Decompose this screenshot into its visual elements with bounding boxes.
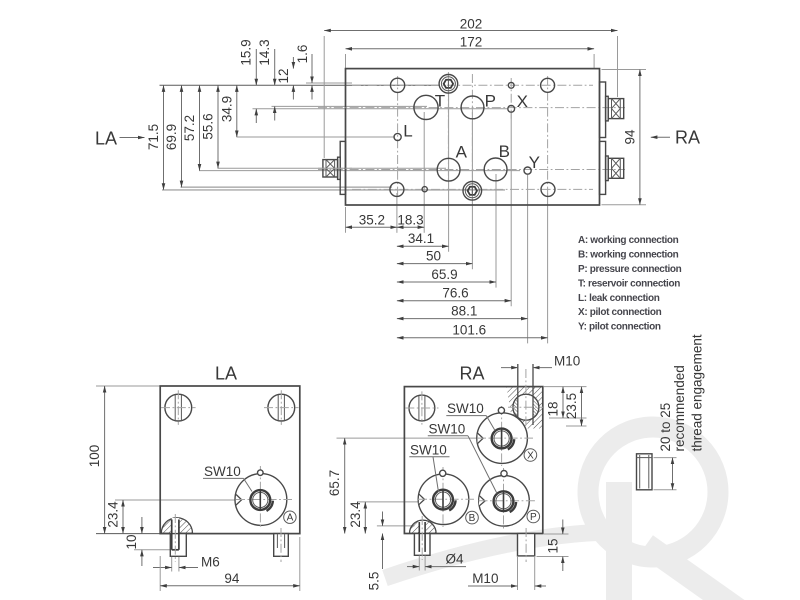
stud right lower bbox=[606, 156, 624, 181]
svg-text:100: 100 bbox=[87, 445, 102, 468]
node refline 69.9 bbox=[181, 186, 393, 188]
label T bbox=[435, 92, 445, 111]
dimension 15.9 bbox=[239, 39, 257, 123]
svg-text:X: X bbox=[527, 450, 534, 461]
stud M6 left LA bbox=[170, 514, 186, 562]
dimension M6 LA bbox=[153, 554, 220, 571]
dimension 69.9 bbox=[164, 85, 182, 187]
svg-text:65.7: 65.7 bbox=[327, 470, 342, 496]
svg-text:23.4: 23.4 bbox=[348, 501, 363, 528]
svg-text:Y: pilot connection: Y: pilot connection bbox=[578, 322, 661, 333]
dimension Ø4 RA bbox=[407, 551, 466, 570]
block body top view bbox=[346, 69, 600, 205]
svg-text:P: P bbox=[530, 512, 537, 523]
svg-text:A: working connection: A: working connection bbox=[578, 235, 679, 246]
svg-text:L: L bbox=[403, 122, 412, 141]
svg-text:P: pressure connection: P: pressure connection bbox=[578, 264, 682, 275]
svg-text:M6: M6 bbox=[201, 554, 220, 569]
svg-text:20 to 25: 20 to 25 bbox=[658, 403, 673, 452]
node refline 71.5 bbox=[162, 189, 505, 191]
svg-text:LA: LA bbox=[215, 364, 237, 384]
bolt socket-head top U1 bbox=[439, 75, 458, 94]
wire extension 172 right bbox=[593, 54, 595, 68]
dimension 172 bbox=[346, 35, 595, 50]
stud pin left RA bbox=[414, 516, 430, 560]
svg-text:88.1: 88.1 bbox=[451, 303, 477, 318]
stud left side with plate bbox=[323, 141, 346, 194]
dimension 14.3 bbox=[257, 39, 275, 120]
dimension 65.7 RA bbox=[327, 438, 345, 533]
svg-text:B: working connection: B: working connection bbox=[578, 250, 679, 261]
dimension 10 LA bbox=[124, 517, 142, 566]
svg-text:14.3: 14.3 bbox=[257, 39, 272, 65]
dimension 18 RA bbox=[546, 387, 564, 418]
svg-text:1.6: 1.6 bbox=[295, 45, 310, 64]
label SW10 P with leader bbox=[428, 421, 497, 493]
wire extension col hole-left bbox=[396, 193, 398, 233]
label 20 to 25 bbox=[658, 403, 673, 452]
svg-text:18: 18 bbox=[546, 401, 561, 416]
dimension 35.2 bbox=[346, 212, 397, 227]
refline LA top edge bbox=[96, 385, 160, 387]
svg-text:A: A bbox=[456, 142, 468, 161]
svg-text:P: P bbox=[485, 92, 496, 111]
watermark logo R bbox=[385, 427, 752, 600]
wire extension col Y bbox=[527, 175, 529, 343]
svg-text:X: X bbox=[517, 92, 528, 111]
hatch corner M10 RA bbox=[507, 364, 544, 429]
hole X bbox=[508, 105, 515, 112]
port B bbox=[484, 158, 507, 181]
hole pilot B RA bbox=[440, 470, 446, 476]
wire extension col T bbox=[423, 112, 425, 233]
node refline 57.2 bbox=[199, 170, 520, 172]
stud right upper bbox=[606, 96, 624, 121]
dimension 5.5 RA bbox=[367, 512, 383, 591]
bolt LA top-left bbox=[161, 390, 196, 425]
label Y bbox=[529, 153, 540, 172]
svg-text:M10: M10 bbox=[554, 353, 580, 368]
svg-text:34.1: 34.1 bbox=[408, 231, 434, 246]
port P bbox=[461, 96, 484, 119]
svg-text:23.5: 23.5 bbox=[564, 393, 579, 419]
svg-text:SW10: SW10 bbox=[429, 421, 466, 436]
port X cavity RA bbox=[477, 406, 533, 466]
dimension 1.6 bbox=[295, 45, 312, 100]
dimension 202 bbox=[324, 16, 617, 31]
node refline 55.6 bbox=[218, 167, 447, 169]
svg-text:18.3: 18.3 bbox=[397, 212, 423, 227]
refline RA 23.4 bbox=[357, 501, 418, 503]
label SW10 B with leader bbox=[409, 442, 449, 492]
svg-text:T: reservoir connection: T: reservoir connection bbox=[578, 278, 680, 289]
label recommended bbox=[672, 365, 687, 451]
svg-text:RA: RA bbox=[459, 364, 484, 384]
hole L bbox=[394, 133, 401, 140]
pocket counterbore RA hatched bbox=[410, 520, 437, 533]
dimension 15 RA bbox=[537, 520, 569, 572]
wire extension col A bbox=[448, 88, 450, 252]
svg-text:202: 202 bbox=[460, 16, 483, 31]
port A cavity LA bbox=[235, 466, 292, 527]
dimension 34.1 bbox=[397, 231, 449, 246]
svg-text:76.6: 76.6 bbox=[442, 286, 468, 301]
dimension 65.9 bbox=[397, 267, 496, 282]
svg-text:SW10: SW10 bbox=[204, 464, 241, 479]
plate right lower bbox=[600, 141, 606, 194]
refline LA hole bottom bbox=[134, 549, 172, 551]
svg-text:thread engagement: thread engagement bbox=[690, 334, 705, 451]
dimension 20 to 25 engagement bbox=[654, 458, 677, 490]
label L bbox=[403, 122, 412, 141]
node rowline top holes bbox=[160, 84, 440, 86]
dimension 100 LA bbox=[87, 386, 105, 534]
svg-text:71.5: 71.5 bbox=[146, 124, 161, 150]
svg-text:12: 12 bbox=[276, 68, 291, 83]
refline LA 23.4 bbox=[115, 499, 236, 501]
label LA title bbox=[215, 364, 237, 384]
svg-text:69.9: 69.9 bbox=[164, 124, 179, 150]
node refline T P lower bbox=[253, 108, 508, 110]
svg-text:15: 15 bbox=[545, 538, 560, 553]
port T bbox=[414, 95, 438, 119]
hole pilot X RA bbox=[498, 407, 504, 413]
refline LA bottom edge ext bbox=[96, 533, 160, 535]
centerline row1 bbox=[352, 84, 593, 86]
dimension 23.4 LA bbox=[106, 500, 124, 534]
wire extension col B bbox=[495, 174, 497, 288]
dimension 34.9 bbox=[219, 85, 237, 137]
centerline col X bbox=[510, 78, 512, 120]
hole top-left bbox=[391, 78, 405, 92]
label marker P circled bbox=[527, 510, 540, 523]
label RA pointer bbox=[651, 128, 700, 148]
port B cavity RA bbox=[418, 467, 474, 527]
refline 23.5 bottom bbox=[566, 425, 587, 427]
label thread engagement bbox=[690, 334, 705, 451]
svg-text:X: pilot connection: X: pilot connection bbox=[578, 307, 662, 318]
label B bbox=[499, 142, 510, 161]
centerline stud left bbox=[318, 167, 352, 169]
dimension 23.5 RA bbox=[564, 387, 582, 426]
svg-text:34.9: 34.9 bbox=[219, 96, 234, 122]
node refline 1.6 upper bbox=[306, 82, 352, 84]
hole pilot top X-column bbox=[508, 82, 514, 88]
svg-text:SW10: SW10 bbox=[447, 401, 484, 416]
hole Y bbox=[524, 167, 531, 174]
dimension M10 top RA bbox=[501, 353, 580, 368]
svg-text:10: 10 bbox=[124, 534, 139, 549]
wire extension block left bottom bbox=[345, 207, 347, 233]
hole bottom-left bbox=[390, 182, 404, 196]
dimension 94 LA bbox=[160, 537, 300, 591]
bolt socket-head bottom U2 bbox=[463, 182, 482, 201]
svg-text:Ø4: Ø4 bbox=[446, 551, 465, 566]
refline 18 bottom bbox=[549, 417, 587, 419]
svg-text:A: A bbox=[287, 513, 294, 524]
svg-text:55.6: 55.6 bbox=[201, 113, 216, 139]
label P bbox=[485, 92, 496, 111]
wire extension col X bbox=[510, 113, 512, 306]
port A bbox=[437, 158, 460, 181]
dimension 57.2 bbox=[182, 85, 200, 170]
centerline col P bolt-bottom bbox=[471, 74, 473, 203]
stud right LA bbox=[274, 528, 289, 562]
dimension 88.1 bbox=[397, 303, 528, 318]
refline RA 65.7 top bbox=[337, 437, 478, 439]
wire extension 202 left bbox=[323, 36, 325, 158]
dimension M10 bottom RA bbox=[468, 556, 546, 590]
refline RA top right ext bbox=[544, 386, 587, 388]
pocket counterbore LA hatched bbox=[161, 518, 192, 534]
dimension 12 bbox=[276, 57, 293, 100]
svg-text:23.4: 23.4 bbox=[106, 501, 121, 528]
svg-text:L: leak connection: L: leak connection bbox=[578, 293, 660, 304]
label X bbox=[517, 92, 528, 111]
label A bbox=[456, 142, 468, 161]
label SW10 LA with leader bbox=[203, 464, 252, 492]
block body RA bbox=[404, 387, 542, 534]
svg-text:B: B bbox=[469, 513, 476, 524]
hole top-right bbox=[541, 78, 555, 92]
centerline row A B bbox=[318, 169, 625, 171]
wire extension 172 left bbox=[345, 54, 347, 68]
dimension 50 bbox=[397, 248, 473, 263]
port P cavity RA bbox=[479, 468, 536, 529]
centerline row T P bbox=[318, 107, 625, 109]
hole pilot P RA bbox=[501, 471, 507, 477]
svg-text:M10: M10 bbox=[472, 571, 498, 586]
svg-text:Y: Y bbox=[529, 153, 540, 172]
dimension 101.6 bbox=[397, 323, 548, 338]
dimension 94 side bbox=[602, 70, 647, 205]
wire extension col P bbox=[471, 112, 473, 269]
legend connection table bbox=[578, 235, 682, 332]
label marker A circled bbox=[284, 511, 296, 524]
svg-text:15.9: 15.9 bbox=[239, 39, 254, 65]
node refline T P upper bbox=[272, 105, 428, 107]
centerline row bottom bbox=[352, 188, 593, 190]
label marker X circled bbox=[524, 449, 537, 462]
svg-text:LA: LA bbox=[95, 129, 117, 149]
hole pilot bottom bbox=[422, 187, 427, 192]
svg-text:172: 172 bbox=[460, 35, 483, 50]
svg-text:recommended: recommended bbox=[672, 365, 687, 451]
stud M10 right RA bbox=[518, 528, 535, 562]
centerline col bolt-top bbox=[447, 72, 449, 183]
bolt LA top-right bbox=[264, 390, 299, 425]
svg-text:RA: RA bbox=[675, 128, 700, 148]
centerline col hole-right bbox=[547, 76, 549, 198]
svg-text:B: B bbox=[499, 142, 510, 161]
dimension 18.3 bbox=[397, 212, 424, 227]
bolt RA top-left bbox=[405, 391, 438, 424]
node refline L row bbox=[237, 136, 396, 138]
hole bottom-right bbox=[541, 182, 555, 196]
label SW10 X with leader bbox=[446, 401, 495, 430]
dimension 71.5 bbox=[146, 85, 164, 190]
svg-text:SW10: SW10 bbox=[410, 442, 447, 457]
wire extension 202 right bbox=[617, 36, 619, 97]
svg-text:50: 50 bbox=[426, 248, 441, 263]
hole pilot LA bbox=[258, 470, 264, 476]
label RA title bbox=[459, 364, 484, 384]
svg-text:65.9: 65.9 bbox=[431, 267, 457, 282]
wire extension col hole-right bbox=[547, 193, 549, 343]
dimension 23.4 RA bbox=[348, 501, 366, 534]
dimension 55.6 bbox=[201, 85, 219, 168]
thread engagement cylinder bbox=[637, 454, 653, 490]
label LA pointer bbox=[95, 129, 145, 149]
svg-text:T: T bbox=[435, 92, 445, 111]
block body LA bbox=[160, 386, 300, 534]
svg-text:94: 94 bbox=[622, 129, 637, 145]
centerline col hole-left bbox=[397, 76, 399, 198]
svg-text:101.6: 101.6 bbox=[452, 323, 486, 338]
dimension 76.6 bbox=[397, 286, 511, 301]
plate right upper bbox=[600, 82, 606, 138]
svg-text:5.5: 5.5 bbox=[367, 572, 382, 591]
label marker B circled bbox=[466, 511, 479, 524]
svg-text:35.2: 35.2 bbox=[359, 212, 385, 227]
svg-text:94: 94 bbox=[224, 571, 240, 586]
svg-text:57.2: 57.2 bbox=[182, 115, 197, 141]
refline RA pocket floor bbox=[377, 525, 415, 527]
